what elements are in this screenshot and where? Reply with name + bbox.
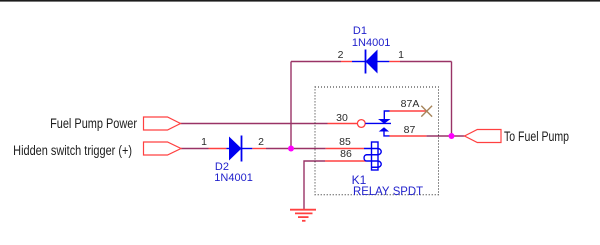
wire: right vertical, D1 pin 1 down to node B (451, 62, 453, 137)
relay pin 87 lead (390, 135, 427, 137)
diode D2 pin 1 lead (209, 148, 227, 150)
node B junction dot (449, 133, 455, 139)
label To Fuel Pump (504, 129, 569, 144)
port Fuel Pump Power (144, 117, 181, 130)
relay coil K1 (364, 142, 381, 170)
pin number 2 (D2) (251, 136, 272, 148)
designator D1 (353, 25, 367, 37)
wire: Hidden switch trigger to D2 pin 1 (181, 148, 209, 150)
diode D1 pin 1 lead (389, 61, 400, 63)
pin number 1 (D1) (391, 49, 412, 61)
diode D1 pin 2 lead (341, 61, 352, 63)
designator K1 (352, 173, 367, 187)
relay pin 86 lead (325, 160, 366, 162)
port To Fuel Pump (465, 130, 502, 143)
wire: D1 pin 1 to right vertical (400, 61, 452, 63)
pin number 85 (335, 136, 356, 148)
designator D2 (215, 161, 229, 173)
pin number 87 (399, 124, 420, 136)
value RELAY SPDT (353, 184, 423, 198)
wire stub 87A (384, 111, 389, 119)
diode D2 pin 2 lead (252, 148, 266, 150)
pin 30 contact circle (357, 120, 365, 128)
pin number 86 (336, 148, 357, 160)
relay pin 87A lead (390, 110, 427, 112)
node A junction dot (288, 146, 294, 152)
diode D1 body (352, 50, 389, 74)
wire: pin 87 to To Fuel Pump port (426, 135, 464, 137)
pin number 30 (332, 112, 353, 124)
wire: D2 pin 2 to pin 85 (through node A) (266, 148, 326, 150)
relay pin 30 lead (328, 123, 358, 125)
value 1N4001 (D1) (352, 37, 391, 49)
pin number 1 (D2) (194, 136, 215, 148)
wire: Fuel Pump Power to pin 30 (181, 123, 328, 125)
relay common contact line (365, 122, 391, 124)
pin number 2 (D1) (330, 49, 351, 61)
port Hidden switch trigger (144, 142, 182, 155)
wire: left vertical, D1 pin 2 down to node A (290, 62, 292, 149)
relay contact arrow to 87 (379, 127, 389, 131)
wire: top horizontal through D1 (291, 61, 341, 63)
no-connect X on 87A (421, 106, 432, 117)
diode D2 body (226, 136, 252, 162)
ground (290, 210, 316, 221)
wire: pin 86 down to ground (304, 161, 325, 209)
relay contact arrow to 87A (378, 119, 391, 124)
value 1N4001 (D2) (214, 172, 253, 184)
label Hidden switch trigger (+) (0, 143, 132, 158)
relay pin 85 lead (326, 148, 364, 150)
pin number 87A (399, 98, 421, 110)
label Fuel Pump Power (0, 116, 137, 131)
relay K1 dashed box (315, 87, 439, 195)
wire stub 87 (384, 132, 390, 136)
